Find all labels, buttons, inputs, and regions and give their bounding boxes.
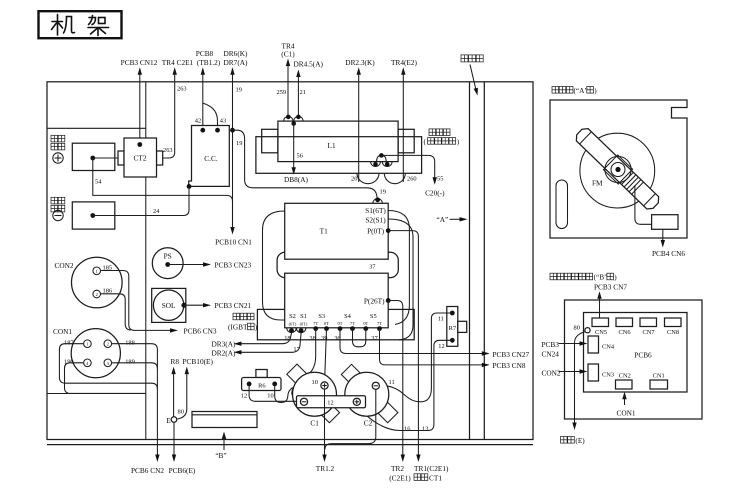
wire TR1.2 from C1 [316,389,335,473]
wire S4-S5 series loop [353,329,366,347]
svg-text:DB8(A): DB8(A) [284,175,308,184]
wire C2 minus down merge [325,389,376,449]
label TR4 (C1) top [281,42,295,118]
svg-text:263: 263 [163,147,173,154]
resistor R7 [357,307,467,431]
svg-text:P(26T): P(26T) [364,297,385,306]
wire 37 to PCB3 CN8 [380,329,526,371]
svg-text:(C1): (C1) [281,50,295,59]
connector CN7 [640,318,657,327]
svg-text:DR2(A): DR2(A) [212,348,236,357]
wire DR4.5(A) to L1 terminal [297,73,299,117]
svg-text:TR2: TR2 [391,464,404,473]
svg-text:PCB8: PCB8 [196,49,214,58]
wire DR6/DR7 down to PCB10 CN1 [232,71,234,231]
svg-text:(IGBT: (IGBT [228,323,248,332]
svg-text:56: 56 [297,153,303,160]
L1 cable bump left [357,173,379,183]
bottom plate B [192,412,257,460]
svg-text:13: 13 [422,426,428,433]
svg-text:54: 54 [95,179,102,186]
C1 plus terminal [312,379,329,389]
svg-text:S1(6T): S1(6T) [365,206,386,215]
bus bar plus terminal [353,398,360,405]
IGBT heatsink bar [257,309,414,339]
svg-text:42: 42 [195,118,201,125]
fan connector box [652,215,678,230]
wire 13 P(0T) to TR1(C2E1) [388,231,449,483]
svg-text:SOL: SOL [162,301,176,310]
svg-text:S5: S5 [370,313,377,320]
fan shroud circle [580,133,655,208]
label 输出端子 (output terminal +) [51,135,65,150]
arrow CON1 from CN2 [622,392,626,400]
CON1 pin 2 [104,340,112,348]
svg-text:(“A”: (“A” [574,86,588,95]
arrow PCB6 CN3 [170,328,178,332]
svg-text:1: 1 [86,342,88,347]
svg-text:10: 10 [267,393,273,400]
T1 winding loop right inner [388,219,413,340]
solenoid SOL [152,288,252,322]
pressure switch PS [152,248,251,279]
svg-text:(“B”: (“B” [594,273,608,282]
filter panel outer box [565,300,703,419]
wire terminal+ to CT2 left tab [93,157,118,159]
wire R6 pin10 to C1 [275,384,293,403]
svg-text:1: 1 [96,269,98,274]
CT2 top pin dot [137,142,142,147]
svg-text:CN1: CN1 [653,372,665,379]
svg-text:259: 259 [277,89,287,96]
wire 56 DB8(A) [293,124,295,169]
svg-text:CN5: CN5 [595,329,607,336]
wire 17 to DR2(A) [212,333,302,357]
svg-text:CN24: CN24 [542,350,560,359]
fan hub square [603,155,632,184]
node 19 junction dot [230,128,235,133]
wire 36 to PCB3 CN27 [340,329,530,359]
wire branch to C.C. pin 43 [203,103,218,130]
svg-text:PCB3 CN8: PCB3 CN8 [493,361,526,370]
wire 188 down to PCB6 CN2 [112,344,158,455]
label 散热片(二极管侧) [429,129,436,136]
svg-text:(6T): (6T) [289,322,297,327]
svg-text:37: 37 [369,264,376,271]
svg-text:CN2: CN2 [619,372,631,379]
label DR4.5(A) top [277,60,324,118]
output terminal block + [72,143,115,170]
L1 bottom terminal dots [373,162,378,167]
arrow PCB10(E) [178,357,214,419]
svg-text:11: 11 [438,315,444,322]
svg-text:10: 10 [312,379,318,386]
CON1 pin 3 [104,359,112,367]
svg-text:PCB10 CN1: PCB10 CN1 [215,238,252,247]
CON2 pin 2 [93,290,101,298]
svg-text:0T: 0T [324,321,329,326]
inductor L1 assembly [256,115,460,198]
L1 tap hump [377,155,387,161]
fan panel slot [556,180,568,229]
label 过滤器安装板("B"向) [550,273,557,280]
svg-text:263: 263 [177,86,187,93]
label TR4(E2) top [391,58,418,182]
svg-text:L1: L1 [328,141,336,150]
fan board panel [550,86,687,258]
svg-text:DR4.5(A): DR4.5(A) [294,60,324,69]
partition wall horizontal [47,127,146,129]
L1 left end rect [262,129,278,153]
wire 187 down [59,344,157,389]
svg-text:CN4: CN4 [602,343,615,350]
T1 bottom pin dots [289,328,294,333]
svg-text:C20(-): C20(-) [425,189,445,198]
svg-text:CON2: CON2 [542,368,561,377]
partition wall vertical [145,82,147,440]
wire 18 to DR3(A) [212,333,292,349]
output terminal block - [72,202,115,229]
L1 center tap dot [291,121,296,126]
arrow PCB3 CN7 from CN5 [597,291,601,299]
svg-text:189: 189 [125,359,135,366]
connector CN8 [665,318,682,327]
svg-text:R8: R8 [171,357,180,366]
svg-text:PCB3 CN12: PCB3 CN12 [121,58,158,67]
svg-text:PCB3 CN23: PCB3 CN23 [215,260,252,269]
svg-text:11: 11 [389,379,395,386]
C2 minus terminal [372,379,394,389]
filter mounting board panel [542,273,703,445]
L1 top terminal dots [286,115,291,120]
svg-text:80: 80 [178,409,184,416]
svg-text:DR6(K): DR6(K) [224,49,248,58]
svg-text:20: 20 [351,176,357,183]
fan board wall line 2 [483,82,485,440]
svg-text:R6: R6 [258,382,265,389]
svg-text:(E): (E) [575,436,585,445]
svg-text:55: 55 [437,176,443,183]
label 输出端子 (output terminal -) [51,197,65,212]
wire 11 R7 to C2 minus [379,313,452,402]
T1 lower body [285,273,389,328]
capacitor C2 [345,372,389,416]
CT2 body [124,138,157,177]
resistor R6 [241,370,297,403]
svg-text:DR3(A): DR3(A) [212,340,236,349]
T1 top terminal bump [373,199,383,204]
label TR4 C2E1 top [162,58,194,158]
ground stud E with 80 [166,409,184,425]
transformer T1 assembly [212,197,530,482]
transformer CT2 [118,138,173,177]
svg-text:43: 43 [220,118,226,125]
svg-text:PCB3 CN27: PCB3 CN27 [493,350,530,359]
svg-text:“A”: “A” [437,215,449,224]
title box 机架 (frame) [39,11,122,38]
wire R6 pin12 to bus bar [249,384,296,401]
svg-text:C2: C2 [364,418,373,427]
svg-text:PCB3: PCB3 [542,340,560,349]
svg-text:S3: S3 [318,313,325,320]
wire 186 join [101,294,131,330]
wire 189 down [112,363,158,369]
svg-text:260: 260 [407,176,417,183]
glyph 架 [88,16,109,36]
C.C. pin 43 dot [215,128,220,133]
arrow R8 [171,357,180,417]
fan panel outline [550,100,687,238]
svg-text:C1: C1 [310,418,319,427]
left compartment bottom wall [47,393,146,395]
wire PCB3 CN12 to CT2 [139,71,141,145]
svg-text:PCB4 CN6: PCB4 CN6 [652,249,685,258]
svg-text:R7: R7 [449,325,457,332]
T1 core band 37 [277,252,398,277]
svg-text:12: 12 [241,393,247,400]
svg-text:T1: T1 [320,227,328,236]
svg-text:80: 80 [574,325,580,332]
pin P(26T) dot [386,298,391,303]
fan blade [573,126,661,212]
svg-text:188: 188 [125,339,135,346]
svg-text:CN6: CN6 [618,329,630,336]
label PCB8 (TB1.2) top [196,49,221,130]
CT2 left tab [118,151,124,165]
T1 upper body [285,203,389,259]
svg-text:12: 12 [438,343,444,350]
wire 39 to C1 plus [325,329,327,382]
main chassis outline [47,82,533,445]
svg-text:PCB10(E): PCB10(E) [183,357,214,366]
svg-text:DR2.3(K): DR2.3(K) [345,58,375,67]
L1 cable bump right [384,173,405,183]
connector CON2 [55,257,217,335]
wire 38 to capacitor bar [292,329,316,395]
wire 185 to PCB6 CN3 [101,271,172,331]
label A with arrow to wall [437,215,468,224]
L1 right end rect [398,129,414,153]
connector CN5 [592,318,609,327]
svg-text:CON1: CON1 [616,408,635,417]
svg-text:24: 24 [153,208,160,215]
fan hub circles [605,156,631,182]
T1 winding loop right outer [388,211,409,325]
svg-text:DR7(A): DR7(A) [224,58,248,67]
CON2 pin 1 [93,267,101,275]
svg-text:“B”: “B” [215,451,226,460]
svg-text:TR4 C2E1: TR4 C2E1 [162,58,194,67]
svg-text:(TB1.2): (TB1.2) [197,58,221,67]
T1 bottom pin scallops [287,328,306,333]
svg-text:PCB3 CN21: PCB3 CN21 [215,301,252,310]
wire ground to 接地(E) [575,332,586,423]
svg-text:7T: 7T [313,321,318,326]
svg-text:19: 19 [236,87,242,94]
fan blade hatch [621,172,643,194]
svg-text:0T: 0T [338,321,343,326]
svg-text:PS: PS [164,252,172,261]
connector CN6 [616,318,633,327]
svg-text:2: 2 [107,342,109,347]
svg-text:CT1: CT1 [429,473,442,482]
svg-text:TR4(E2): TR4(E2) [391,58,418,67]
wire 263 TR4C2E1 to CT2 right tab [163,71,175,158]
PCB6 board box [584,313,688,393]
svg-text:CT2: CT2 [134,154,147,163]
svg-text:7T: 7T [377,321,382,326]
plus terminal symbol [53,153,63,163]
capacitor C1 [293,372,337,416]
svg-text:C.C.: C.C. [204,154,218,163]
svg-text:PCB6: PCB6 [634,351,652,360]
wire 24 to C.C. [93,189,189,216]
svg-text:PCB6 CN3: PCB6 CN3 [184,326,217,335]
svg-text:S2(S1): S2(S1) [365,216,386,225]
arrow PCB10 CN1 [230,227,234,235]
minus terminal symbol [53,210,63,220]
label DR6(K) DR7(A) top [215,49,252,247]
svg-text:PCB6(E): PCB6(E) [169,466,196,475]
wire TR4(E2) into L1 cable bump [402,71,404,182]
capacitor C1 mounting diamonds [287,364,398,423]
fan board wall line 1 [469,82,471,440]
svg-text:2: 2 [96,292,98,297]
label 散热片(IGBT侧) [233,313,240,320]
label 风机板("A"向) [552,87,559,94]
wire PCB6(E) [169,422,196,475]
CT2 right tab [157,151,163,165]
arrow PCB6 CN2 [155,455,159,463]
svg-text:E: E [166,416,171,425]
wire 54 to PCB10 CN1 [93,158,233,228]
label 风机板 (fan board wall) [461,55,483,96]
svg-text:CN3: CN3 [602,371,614,378]
wire 16 P(26T) to TR2(C2E1) [388,301,411,483]
wire PCB8 to C.C. pin 42 [202,71,204,130]
label PCB3 CN12 top [121,58,158,145]
connector CN4 [588,336,599,353]
C.C. pin 42 dot [200,128,205,133]
wire TR4(C1) to L1 terminal [287,62,289,117]
svg-text:FM: FM [592,179,603,188]
wire fan to connector [635,186,652,224]
svg-text:CN8: CN8 [667,329,679,336]
junction dot wire24 at C.C. [187,184,192,189]
svg-text:S4: S4 [344,313,352,320]
label DR2.3(K) top [345,58,375,182]
L1 body rect [278,121,398,162]
L1 bottom terminal bumps [371,162,393,167]
capacitor bus bar [297,396,366,408]
controller C.C. [187,118,386,200]
svg-text:PCB3 CN7: PCB3 CN7 [594,282,627,291]
svg-text:(0T): (0T) [300,322,308,327]
svg-text:(C2E1): (C2E1) [389,473,411,482]
wire 12 R7 to bar plus [357,340,452,430]
svg-text:TR1(C2E1): TR1(C2E1) [414,464,449,473]
svg-text:21: 21 [300,89,306,96]
svg-text:19: 19 [380,189,386,196]
svg-text:0T: 0T [363,321,368,326]
CON1 pin 1 [84,340,92,348]
wire DR2.3(K) into L1 cable bump [358,71,360,182]
wire 55 to C20(-) [381,155,434,180]
svg-text:37: 37 [371,335,378,342]
svg-text:7T: 7T [350,321,355,326]
svg-text:16: 16 [404,426,410,433]
wire 19 from C.C. to T1 [233,130,378,199]
pin P(0T) dot [386,228,391,233]
T1 winding loop left [263,211,285,320]
svg-text:TR1.2: TR1.2 [316,464,335,473]
svg-text:187: 187 [64,339,74,346]
svg-text:12: 12 [327,400,333,407]
svg-text:PCB6 CN2: PCB6 CN2 [131,466,164,475]
connector CN3 [588,364,599,381]
glyph 机 [52,15,75,36]
CON1 pin 4 [84,359,92,367]
svg-text:S1: S1 [300,313,307,320]
svg-text:S2: S2 [289,313,296,320]
wire 190 down [65,363,146,394]
bus bar minus terminal [300,398,307,405]
svg-text:CN7: CN7 [642,329,655,336]
svg-text:P(0T): P(0T) [367,227,385,236]
L1 outer core rect [256,137,422,174]
chassis bottom second line [47,444,533,446]
L1 top terminal bumps [284,116,304,121]
connector CON1 [53,327,164,475]
svg-text:38: 38 [309,335,315,342]
svg-text:CON2: CON2 [55,261,74,270]
svg-text:19: 19 [236,140,242,147]
arrow PCB4 CN6 [662,229,664,240]
svg-text:CON1: CON1 [53,327,72,336]
